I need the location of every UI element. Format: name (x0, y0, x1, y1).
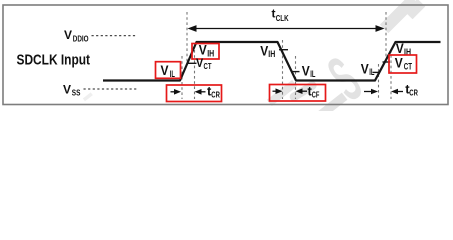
tick VCT2 crossing (383, 61, 391, 63)
svg-text:V: V (396, 41, 404, 56)
svg-text:V: V (64, 28, 72, 42)
tCR2 dashed vertical left (x=378.5) (378, 64, 380, 99)
svg-text:CR: CR (409, 88, 418, 98)
svg-text:V: V (63, 82, 71, 96)
tCR1 right-arrow (171, 89, 182, 95)
svg-text:V: V (161, 63, 169, 78)
tCR1 dashed vertical right (x=194.5) (194, 50, 196, 99)
VSS dashed leader (84, 88, 138, 90)
label tCF (308, 83, 320, 99)
svg-text:V: V (361, 61, 369, 76)
svg-text:IH: IH (268, 49, 275, 59)
clock waveform (103, 42, 441, 81)
label VCT1 (196, 56, 212, 71)
tick VIL3 crossing (373, 71, 380, 73)
svg-text:IL: IL (310, 69, 316, 79)
svg-text:IH: IH (207, 49, 214, 59)
label VIL2 (302, 63, 316, 79)
figure border frame (3, 5, 448, 105)
VIL1 red box (156, 62, 181, 79)
svg-text:CF: CF (312, 90, 320, 100)
svg-text:CT: CT (404, 62, 413, 72)
label tCR1 (207, 83, 220, 99)
label VIL3 (361, 61, 375, 77)
tCF dashed vertical left (x=282.5) (282, 40, 284, 99)
label VIH3 (396, 41, 411, 57)
label VDDIO (64, 28, 89, 44)
VIH1 red box (192, 44, 219, 60)
watermark stripe top-right 2 (405, 0, 426, 19)
svg-text:SS: SS (72, 89, 81, 98)
svg-text:V: V (302, 63, 310, 78)
tCLK arrow (188, 25, 385, 32)
tick VIL2 crossing (292, 71, 300, 73)
tCF right-arrow (273, 88, 283, 94)
label VCT2 (395, 56, 413, 72)
tCR2 left-arrow (391, 89, 403, 95)
tick VCT1 crossing (188, 62, 197, 64)
tCLK dashed vertical right (x=386) (385, 12, 387, 63)
watermark fragment stripe bottom-right (318, 93, 347, 119)
label tCR2 (405, 82, 418, 98)
tCR1 red box (167, 85, 222, 102)
svg-text:SDCLK Input: SDCLK Input (17, 52, 91, 68)
tCLK dashed vertical left (x=187) (186, 12, 188, 63)
tCR2 dashed vertical right (x=391) (390, 50, 392, 99)
label VSS (63, 82, 81, 97)
label VIL1 (161, 63, 176, 79)
tCR2 right-arrow (364, 89, 378, 95)
svg-text:DDIO: DDIO (73, 35, 89, 44)
tCF left-arrow (296, 88, 308, 94)
svg-text:CR: CR (211, 89, 220, 99)
tick VIH2 crossing (279, 49, 288, 51)
svg-text:IL: IL (170, 69, 176, 79)
label VIH1 (199, 43, 214, 59)
tCF dashed vertical right (x=295.5) (295, 56, 297, 99)
tCF red box (270, 85, 326, 102)
svg-text:V: V (395, 56, 403, 71)
svg-text:CLK: CLK (276, 14, 289, 23)
watermark stripe top-right 1 (380, 0, 418, 33)
svg-text:V: V (196, 56, 203, 70)
svg-text:V: V (260, 43, 268, 58)
tCR1 dashed vertical left (x=182) (181, 56, 183, 99)
watermark stripe bottom-left fragment (267, 80, 297, 106)
label VIH2 (260, 43, 275, 59)
tCR1 left-arrow (195, 89, 206, 95)
watermark fragment blob middle (288, 80, 318, 103)
label tCLK (272, 7, 289, 23)
VDDIO dashed leader (92, 35, 138, 37)
watermark small fragment left (83, 92, 93, 101)
svg-text:IL: IL (369, 67, 375, 77)
svg-text:CT: CT (204, 61, 213, 71)
VCT2 red box (389, 55, 417, 73)
